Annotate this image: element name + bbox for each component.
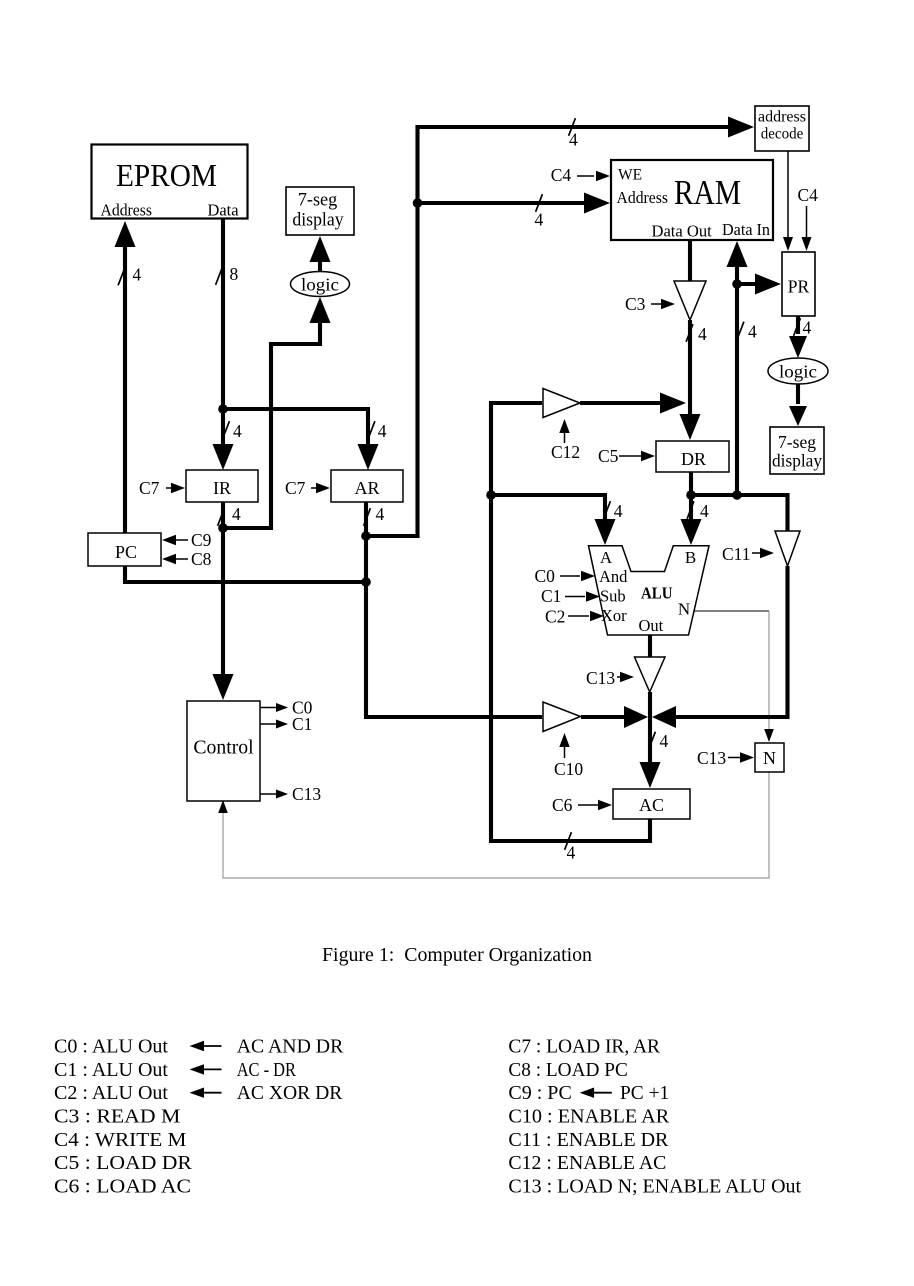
slash 4 on PR output xyxy=(794,318,801,336)
wire PC-to-EPROM-Address xyxy=(123,246,127,533)
wire ALU-Out to C13 buffer xyxy=(648,635,652,657)
wire to RAM-DataIn xyxy=(735,266,739,495)
svg-text:C5: C5 xyxy=(598,446,619,466)
svg-text:C4 : WRITE M: C4 : WRITE M xyxy=(54,1129,187,1151)
svg-text:C1: C1 xyxy=(541,586,561,606)
block ALU xyxy=(589,546,710,635)
wire C11-output to AC bus xyxy=(676,566,788,717)
ellipse logic left xyxy=(291,272,350,297)
svg-text:N: N xyxy=(678,600,690,619)
svg-text:And: And xyxy=(599,567,628,586)
svg-text:4: 4 xyxy=(232,504,241,524)
svg-text:C13: C13 xyxy=(697,748,726,768)
svg-text:display: display xyxy=(772,451,822,471)
svg-text:WE: WE xyxy=(618,167,642,184)
buffer C11 xyxy=(775,531,800,566)
svg-text:PR: PR xyxy=(788,277,810,297)
svg-text:AC XOR DR: AC XOR DR xyxy=(237,1082,343,1104)
wire N-to-Control feedback xyxy=(223,772,769,878)
svg-text:Xor: Xor xyxy=(601,606,627,625)
svg-text:C1: C1 xyxy=(292,714,312,734)
svg-text:Data Out: Data Out xyxy=(652,222,712,241)
slash 4 on AR input xyxy=(368,421,375,439)
svg-text:Data In: Data In xyxy=(722,220,770,239)
wire logic-to-7seg right xyxy=(796,384,800,404)
junction dot DR-output xyxy=(686,490,696,500)
wire IR-to-logic xyxy=(223,322,320,528)
junction dot AR-output xyxy=(361,531,371,541)
svg-text:7-seg: 7-seg xyxy=(778,432,816,452)
wire C12-buffer-output xyxy=(580,401,662,405)
wire logic-to-7seg xyxy=(318,260,322,272)
svg-text:address: address xyxy=(758,109,806,126)
block RAM xyxy=(611,160,773,240)
block Control xyxy=(187,701,260,801)
block address decode xyxy=(755,106,809,151)
svg-text:Control: Control xyxy=(193,738,254,759)
svg-text:IR: IR xyxy=(213,478,231,498)
slash 4 on IR input xyxy=(223,421,230,439)
svg-text:C0: C0 xyxy=(535,566,556,586)
wire to PR xyxy=(737,282,758,286)
svg-text:4: 4 xyxy=(614,501,623,521)
svg-text:N: N xyxy=(763,748,776,768)
svg-text:AC AND DR: AC AND DR xyxy=(237,1036,344,1058)
block 7-seg display right xyxy=(770,427,824,474)
svg-text:C13: C13 xyxy=(586,668,615,688)
wire DR-to-C11 xyxy=(691,495,788,531)
svg-text:C11 : ENABLE DR: C11 : ENABLE DR xyxy=(508,1129,669,1151)
svg-text:AC: AC xyxy=(639,795,664,815)
svg-text:Data: Data xyxy=(208,201,239,220)
wire to RAM Address xyxy=(418,201,587,205)
junction dot PR tap xyxy=(732,279,742,289)
svg-text:7-seg: 7-seg xyxy=(298,190,338,211)
svg-text:4: 4 xyxy=(376,504,385,524)
svg-text:C3: C3 xyxy=(625,294,646,314)
svg-text:AR: AR xyxy=(354,478,379,498)
wire C3 to DR xyxy=(688,320,692,417)
svg-text:C5 : LOAD DR: C5 : LOAD DR xyxy=(54,1152,193,1174)
block PC xyxy=(88,533,161,566)
svg-text:C8 : LOAD PC: C8 : LOAD PC xyxy=(508,1059,628,1081)
svg-text:C10: C10 xyxy=(554,759,583,779)
wire IR-to-Control xyxy=(221,502,225,677)
svg-text:8: 8 xyxy=(230,264,239,284)
svg-text:C9 : PC: C9 : PC xyxy=(508,1082,571,1104)
slash 4 on EPROM-address wire xyxy=(118,268,125,286)
svg-text:C8: C8 xyxy=(191,549,212,569)
buffer C3 xyxy=(674,281,706,320)
signal C1 output xyxy=(260,723,276,725)
svg-text:C4: C4 xyxy=(798,185,819,205)
svg-text:display: display xyxy=(292,210,344,231)
svg-text:C1 : ALU Out: C1 : ALU Out xyxy=(54,1059,168,1081)
junction dot IR-output tap xyxy=(218,523,228,533)
slash 4 on ALU-A input xyxy=(604,501,611,519)
svg-text:C7: C7 xyxy=(139,478,160,498)
svg-text:ALU: ALU xyxy=(641,584,673,603)
svg-text:C2: C2 xyxy=(545,607,565,627)
svg-text:logic: logic xyxy=(301,275,339,295)
junction dot PC-join xyxy=(361,577,371,587)
svg-text:C6: C6 xyxy=(552,795,573,815)
svg-text:4: 4 xyxy=(660,731,669,751)
svg-text:A: A xyxy=(600,548,613,567)
svg-text:C9: C9 xyxy=(191,530,212,550)
svg-text:C12 : ENABLE AC: C12 : ENABLE AC xyxy=(508,1152,666,1174)
slash 4 on IR output xyxy=(218,508,225,526)
buffer C12 xyxy=(543,389,580,418)
slash 4 on ALU-B input xyxy=(687,501,694,519)
svg-text:logic: logic xyxy=(779,362,817,382)
svg-text:C12: C12 xyxy=(551,442,580,462)
signal C13 output xyxy=(260,793,276,795)
svg-text:C13: C13 xyxy=(292,784,321,804)
wire DR-to-ALU-B xyxy=(689,472,693,521)
svg-text:Address: Address xyxy=(617,188,669,207)
svg-text:C11: C11 xyxy=(722,544,751,564)
svg-text:DR: DR xyxy=(681,449,706,469)
block AR xyxy=(331,470,403,502)
junction dot DataIn tap xyxy=(732,490,742,500)
buffer C10 xyxy=(543,702,581,732)
slash 4 on DataIn xyxy=(737,322,744,340)
block AC xyxy=(613,789,690,819)
wire data-bus to AR xyxy=(223,409,368,446)
slash 8 on EPROM-data wire xyxy=(216,267,223,285)
block N xyxy=(755,743,784,772)
block EPROM xyxy=(92,145,248,219)
wire C10-buffer-output xyxy=(581,715,624,719)
svg-text:EPROM: EPROM xyxy=(116,157,217,193)
svg-text:B: B xyxy=(685,548,696,567)
signal C0 output xyxy=(260,707,276,709)
junction dot AC-loop tap xyxy=(486,490,496,500)
junction dot EPROM-data/bus xyxy=(218,404,228,414)
svg-text:C3 : READ M: C3 : READ M xyxy=(54,1106,181,1128)
block DR xyxy=(656,441,729,472)
block 7-seg display left xyxy=(286,187,354,235)
svg-text:AC - DR: AC - DR xyxy=(237,1059,297,1081)
slash 4 on RAM-address wire xyxy=(536,194,543,212)
svg-text:C7: C7 xyxy=(285,478,306,498)
svg-text:4: 4 xyxy=(535,210,544,230)
svg-text:decode: decode xyxy=(761,126,804,143)
svg-text:4: 4 xyxy=(132,265,141,285)
wire C13-buffer to AC xyxy=(648,692,652,764)
block IR xyxy=(186,470,258,502)
svg-text:4: 4 xyxy=(567,843,576,863)
wire decode-to-PR xyxy=(787,151,789,238)
svg-text:C4: C4 xyxy=(551,165,572,185)
wire PR-to-logic xyxy=(796,316,800,334)
slash 4 on AC input xyxy=(649,732,656,750)
wire ALU-N-to-N-box xyxy=(689,610,769,612)
block PR xyxy=(782,252,815,316)
svg-text:C10 : ENABLE AR: C10 : ENABLE AR xyxy=(508,1106,669,1128)
svg-text:4: 4 xyxy=(700,501,709,521)
svg-text:RAM: RAM xyxy=(674,173,741,212)
svg-text:4: 4 xyxy=(378,421,387,441)
svg-text:C0 : ALU Out: C0 : ALU Out xyxy=(54,1036,168,1058)
svg-text:PC +1: PC +1 xyxy=(620,1082,669,1104)
svg-text:4: 4 xyxy=(569,130,578,150)
junction dot address-bus/RAM-address xyxy=(413,198,423,208)
ellipse logic right xyxy=(768,358,828,384)
buffer C13 xyxy=(635,657,666,692)
wire AR-output xyxy=(364,502,368,536)
wire EPROM-Data down to IR xyxy=(221,219,225,446)
slash 4 on AR output xyxy=(364,508,371,526)
slash 4 on address-decode wire xyxy=(569,118,576,136)
slash 4 on DataOut xyxy=(686,324,693,342)
svg-text:4: 4 xyxy=(748,322,757,342)
svg-text:C7 : LOAD IR, AR: C7 : LOAD IR, AR xyxy=(508,1036,660,1058)
svg-text:C13 : LOAD N; ENABLE ALU Out: C13 : LOAD N; ENABLE ALU Out xyxy=(508,1176,801,1198)
svg-text:PC: PC xyxy=(115,542,137,562)
svg-text:Sub: Sub xyxy=(600,587,626,606)
svg-text:C6 : LOAD AC: C6 : LOAD AC xyxy=(54,1176,191,1198)
wire to ALU-A xyxy=(491,495,605,521)
svg-text:Address: Address xyxy=(101,201,153,220)
wire RAM-DataOut to C3 xyxy=(688,240,692,281)
svg-text:4: 4 xyxy=(803,318,812,338)
svg-text:C2 : ALU Out: C2 : ALU Out xyxy=(54,1082,168,1104)
wire AC-output loop xyxy=(491,403,650,841)
svg-text:4: 4 xyxy=(698,324,707,344)
svg-text:Figure 1: Computer Organizati: Figure 1: Computer Organization xyxy=(322,944,592,966)
wire address-bus vertical and top run to address decode xyxy=(366,127,729,536)
wire AR-bus down to C10 run xyxy=(366,536,542,717)
slash 4 on AC-output xyxy=(565,832,572,850)
wire PC-output xyxy=(125,566,366,582)
svg-text:Out: Out xyxy=(639,616,664,635)
svg-text:4: 4 xyxy=(233,421,242,441)
